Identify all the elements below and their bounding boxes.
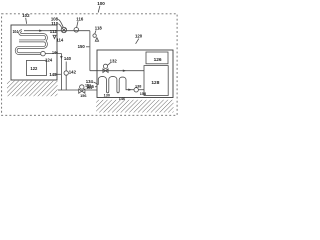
label 138 [135,84,141,88]
label 130 under loops [104,93,110,97]
label 114 [56,38,64,43]
leader 132 [107,63,110,65]
label 134 [86,79,94,84]
label 132 [110,59,118,64]
label 150 [78,44,86,49]
building box [97,50,173,98]
label 124 [45,57,53,62]
svg-text:142: 142 [69,70,77,75]
label 102 [22,13,30,18]
svg-text:114: 114 [56,38,64,43]
leader 134 [93,82,96,84]
supply pipe into building [90,70,144,72]
svg-text:122: 122 [30,66,38,71]
second drop pipe [65,62,67,91]
ground loop serpentine [97,76,129,92]
label 136 [87,84,95,89]
svg-text:154: 154 [86,86,92,90]
label 118 [95,26,103,31]
svg-text:130: 130 [104,93,110,97]
svg-text:150: 150 [78,44,86,49]
pump circle 142 [64,71,68,75]
svg-text:100: 100 [97,1,105,6]
svg-text:118: 118 [95,26,103,31]
label 142 [69,70,77,75]
svg-text:102: 102 [22,13,30,18]
label 108 [51,17,59,22]
svg-text:144: 144 [52,50,58,54]
label 154 [86,86,92,90]
label 140 [64,56,72,61]
coil outlet pipe [45,54,61,90]
ground hatching left [7,81,58,96]
coil pump circle [41,51,46,56]
svg-text:112: 112 [50,29,58,34]
svg-text:146: 146 [119,97,125,101]
arrow on loop outlet [128,89,131,91]
leader 148 [56,73,61,75]
svg-text:104: 104 [13,29,19,34]
valve U2 circle [74,28,79,33]
label 104 [13,29,19,34]
left enclosure box 102 [11,25,57,80]
label 116 [76,16,84,21]
label 110 [51,21,59,26]
ground hatching right [96,100,173,113]
leader 150 [86,46,89,48]
leader 118 [95,30,96,33]
svg-text:158: 158 [140,92,146,96]
leader for 102 [25,18,28,24]
label 152 [85,84,91,88]
leader 108 [58,19,63,27]
label 146 under loops right [119,97,125,101]
inner box 128 [144,66,168,96]
arrow down on drop pipe [60,56,62,59]
svg-text:110: 110 [51,21,59,26]
valve U3 [103,69,108,73]
svg-text:116: 116 [76,16,84,21]
valve U1 circle with X [61,27,66,32]
evaporator coil serpentine 104 [16,31,46,54]
label 100 [97,1,105,6]
leader 136 [95,86,97,88]
strainer symbol 114 [53,35,56,38]
svg-text:132: 132 [110,59,118,64]
svg-text:140: 140 [64,56,72,61]
leader for 100 [98,6,100,13]
inner controller box 122 [27,60,47,75]
label 120 [135,34,143,39]
inner box 126 [146,52,168,64]
leader 116 [77,21,78,27]
relief valve 118 [93,34,96,37]
valve U4 [79,89,85,93]
label 156 [80,94,86,98]
leader 120 [136,39,139,44]
arrow on top pipe [39,30,42,32]
label 112 [50,29,58,34]
bottom supply pipe to ground loop [58,89,97,91]
label 148 [49,72,57,77]
svg-text:124: 124 [45,57,53,62]
dashed system boundary 100 [2,14,178,116]
svg-text:138: 138 [135,84,141,88]
svg-text:126: 126 [154,57,162,63]
top pipe from coil [24,30,90,32]
arrow on supply pipe [123,70,126,72]
svg-text:128: 128 [151,80,159,86]
svg-text:120: 120 [135,34,143,39]
riser pipe to building [89,31,91,71]
leader 110 [58,24,62,29]
pump circle 138 [134,88,138,92]
label 144 on outlet pipe [52,50,58,54]
loop outlet pipe to box 128 [129,89,144,91]
label 158 [140,92,146,96]
svg-text:156: 156 [80,94,86,98]
